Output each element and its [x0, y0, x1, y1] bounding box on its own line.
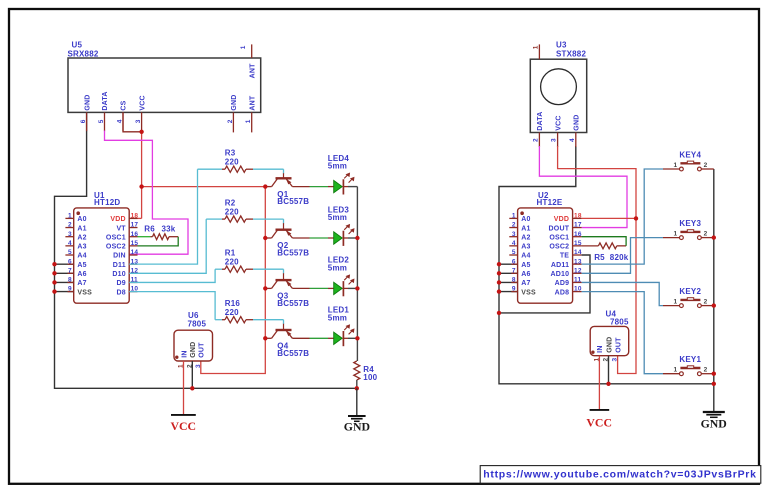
svg-text:16: 16	[131, 231, 139, 238]
svg-text:5: 5	[98, 119, 105, 123]
svg-text:A7: A7	[77, 280, 86, 287]
resistor R6 33k between OSC1/OSC2	[138, 225, 179, 246]
svg-text:https://www.youtube.com/watch?: https://www.youtube.com/watch?v=03JPvsBr…	[483, 468, 756, 480]
U3 pin 4 GND stub	[575, 133, 577, 148]
svg-text:R6: R6	[144, 225, 155, 234]
svg-text:9: 9	[512, 286, 516, 293]
svg-text:VCC: VCC	[171, 419, 197, 433]
svg-text:1: 1	[673, 231, 677, 238]
svg-text:2: 2	[227, 119, 234, 123]
junction dot TE bus	[497, 311, 501, 315]
svg-text:A6: A6	[521, 271, 530, 278]
junction dot rail Q2	[263, 236, 267, 240]
svg-text:IN: IN	[597, 345, 604, 352]
svg-text:5: 5	[512, 249, 516, 256]
svg-text:D10: D10	[112, 271, 125, 278]
svg-text:A4: A4	[521, 253, 530, 260]
U1 pin 3 stub	[65, 236, 73, 238]
svg-text:15: 15	[574, 240, 582, 247]
U3 pin 3 VCC stub	[557, 133, 559, 148]
svg-text:4: 4	[512, 240, 516, 247]
svg-text:GND: GND	[701, 417, 727, 431]
U1 pin 18 stub	[129, 217, 137, 219]
U2 pin 12 stub	[573, 272, 582, 274]
svg-text:17: 17	[574, 222, 582, 229]
svg-text:2: 2	[532, 138, 539, 142]
push button KEY2	[663, 287, 714, 308]
svg-text:VT: VT	[116, 225, 126, 232]
svg-text:2: 2	[704, 367, 708, 374]
svg-text:14: 14	[574, 249, 582, 256]
svg-text:VCC: VCC	[139, 95, 146, 110]
svg-text:KEY1: KEY1	[679, 355, 701, 364]
svg-text:2: 2	[68, 222, 72, 229]
svg-text:16: 16	[574, 231, 582, 238]
svg-text:A2: A2	[521, 234, 530, 241]
U1 pin 11 stub	[129, 281, 137, 283]
svg-text:220: 220	[225, 208, 239, 217]
junction dot rail Q1	[263, 184, 267, 188]
svg-text:11: 11	[574, 277, 581, 284]
svg-text:5mm: 5mm	[328, 313, 347, 322]
svg-text:R1: R1	[225, 249, 236, 258]
svg-text:U5: U5	[72, 40, 83, 49]
svg-text:KEY4: KEY4	[679, 150, 701, 159]
svg-text:D9: D9	[116, 280, 125, 287]
U1 pin 10 stub	[129, 291, 137, 293]
wire D9 to resistor (cyan)	[129, 269, 215, 282]
U1 pin 4 stub	[65, 245, 73, 247]
svg-text:D8: D8	[116, 289, 125, 296]
U1 pin 2 stub	[65, 227, 73, 229]
svg-text:ANT: ANT	[249, 63, 256, 79]
svg-text:R16: R16	[225, 299, 241, 308]
wire AD8 to KEY1 (blue)	[582, 292, 663, 374]
wire key common rail to gnd	[713, 169, 715, 412]
wire D11 to resistor (cyan)	[129, 169, 197, 264]
svg-text:100: 100	[363, 373, 377, 382]
svg-text:1: 1	[240, 45, 247, 49]
U1 pin 8 wire to gnd bus	[55, 281, 74, 283]
U2 pin 5 stub	[509, 254, 517, 256]
svg-text:4: 4	[569, 138, 576, 142]
svg-text:9: 9	[68, 286, 72, 293]
svg-text:5: 5	[68, 249, 72, 256]
svg-text:1: 1	[673, 299, 677, 306]
svg-text:GND: GND	[190, 342, 197, 358]
svg-text:33k: 33k	[162, 225, 176, 234]
junction dot R4 bottom	[355, 386, 359, 390]
junction dot rail gnd right	[712, 382, 716, 386]
U5 pin 1 ANT stub	[251, 112, 253, 132]
junction dot KEY3 rail	[712, 235, 716, 239]
svg-text:6: 6	[80, 119, 87, 123]
junction dot rail Q3	[263, 286, 267, 290]
U1 pin 14 stub	[129, 254, 137, 256]
junction dot U6 GND	[190, 386, 194, 390]
U1 pin 16 stub	[129, 236, 137, 238]
svg-text:7805: 7805	[610, 318, 629, 327]
U2 pin 17 stub	[573, 227, 582, 229]
svg-text:BC557B: BC557B	[277, 299, 309, 308]
junction dot rail Q4	[263, 336, 267, 340]
U1 pin 7 wire to gnd bus	[55, 272, 74, 274]
U2 pin 4 stub	[509, 245, 517, 247]
svg-text:7: 7	[68, 267, 72, 274]
U2 pin 18 stub	[573, 217, 582, 219]
svg-text:HT12E: HT12E	[537, 198, 563, 207]
U1 pin 17 stub	[129, 227, 137, 229]
U2 pin 7 wire to gnd bus	[499, 272, 518, 274]
svg-text:OSC2: OSC2	[106, 244, 126, 251]
svg-text:A1: A1	[521, 225, 530, 232]
transistor Q3 BC557B	[265, 273, 309, 308]
svg-text:DOUT: DOUT	[549, 225, 570, 232]
svg-text:BC557B: BC557B	[277, 197, 309, 206]
svg-text:2: 2	[704, 299, 708, 306]
svg-text:OSC1: OSC1	[549, 234, 569, 241]
junction dot U4 GND	[606, 382, 610, 386]
LED LED4 5mm	[328, 154, 358, 195]
svg-text:3: 3	[512, 231, 516, 238]
svg-text:GND: GND	[606, 337, 613, 353]
svg-text:AD10: AD10	[550, 271, 569, 278]
wire AD9 to KEY2 (blue)	[582, 282, 663, 305]
RF transmitter module U3 STX882	[530, 40, 586, 147]
U2 pin 8 wire to gnd bus	[499, 281, 518, 283]
junction dot KEY2 rail	[712, 303, 716, 307]
power port VCC left	[171, 415, 197, 433]
wire CS to VCC junction	[123, 112, 142, 131]
svg-text:R3: R3	[225, 149, 236, 158]
svg-text:2: 2	[704, 231, 708, 238]
transistor Q1 BC557B	[265, 173, 309, 206]
ground symbol left	[344, 388, 370, 433]
U1 pin 15 stub	[129, 245, 137, 247]
wire VCC branch to Q rail	[142, 186, 266, 188]
resistor R5 820k between OSC1/OSC2	[582, 237, 629, 262]
transistor Q2 BC557B	[265, 223, 309, 258]
wire collector to LED3 (green)	[292, 237, 333, 239]
U1 pin 5 stub	[65, 254, 73, 256]
svg-text:OSC1: OSC1	[106, 234, 126, 241]
wire collector to LED2 (green)	[292, 287, 333, 289]
svg-text:CS: CS	[121, 100, 128, 110]
svg-text:D11: D11	[113, 262, 126, 269]
svg-text:5mm: 5mm	[328, 162, 347, 171]
url box	[480, 466, 761, 484]
U2 pin 10 stub	[573, 291, 582, 293]
svg-text:VSS: VSS	[521, 289, 536, 296]
svg-text:4: 4	[68, 240, 72, 247]
svg-text:7: 7	[512, 267, 516, 274]
junction dot KEY1 rail	[712, 372, 716, 376]
svg-text:820k: 820k	[610, 253, 629, 262]
push button KEY1	[663, 355, 714, 376]
U1 pin 12 stub	[129, 272, 137, 274]
svg-text:220: 220	[225, 158, 239, 167]
svg-text:AD11: AD11	[551, 262, 569, 269]
svg-text:R2: R2	[225, 199, 236, 208]
resistor R16 220	[215, 299, 283, 324]
svg-text:6: 6	[68, 258, 72, 265]
svg-text:VSS: VSS	[77, 289, 92, 296]
junction dot VCC branch	[139, 184, 143, 188]
U3 pin 2 DATA stub	[538, 133, 540, 148]
svg-text:AD9: AD9	[555, 280, 570, 287]
transistor Q4 BC557B	[265, 324, 309, 358]
U2 pin 11 stub	[573, 281, 582, 283]
U2 pin 9 wire to gnd bus	[499, 291, 518, 293]
svg-text:A3: A3	[521, 244, 530, 251]
wire collector to LED4 (green)	[292, 186, 333, 188]
wire D10 to resistor (cyan)	[129, 219, 206, 273]
U2 pin 15 stub	[573, 245, 582, 247]
wire U6 GND to bus	[191, 361, 193, 388]
push button KEY4	[663, 150, 714, 171]
svg-text:GND: GND	[344, 420, 370, 434]
junction dots gnd bus U2 pins 6-9	[497, 262, 501, 294]
svg-text:VDD: VDD	[554, 216, 569, 223]
svg-text:12: 12	[574, 267, 582, 274]
svg-text:A5: A5	[77, 262, 86, 269]
svg-text:2: 2	[704, 162, 708, 169]
svg-text:1: 1	[68, 213, 72, 220]
svg-text:A7: A7	[521, 280, 530, 287]
svg-text:18: 18	[574, 213, 582, 220]
decoder IC U1 HT12D	[55, 191, 139, 303]
svg-text:R5: R5	[594, 253, 605, 262]
svg-text:GND: GND	[574, 115, 581, 131]
svg-text:BC557B: BC557B	[277, 249, 309, 258]
svg-text:A5: A5	[521, 262, 530, 269]
U5 pin 3 VCC stub	[141, 112, 143, 131]
resistor R1 220	[215, 249, 283, 274]
junction dot CS/VCC	[139, 130, 143, 134]
U2 pin 14 stub	[573, 254, 582, 256]
U1 pin 1 stub	[65, 217, 73, 219]
svg-text:SRX882: SRX882	[68, 50, 99, 59]
LED LED2 5mm	[328, 256, 358, 297]
svg-text:DIN: DIN	[113, 253, 126, 260]
svg-text:1: 1	[533, 45, 540, 49]
U1 pin 13 stub	[129, 263, 137, 265]
U2 pin 16 stub	[573, 236, 582, 238]
svg-text:A4: A4	[77, 253, 86, 260]
U2 pin 13 stub	[573, 263, 582, 265]
svg-text:TE: TE	[560, 253, 569, 260]
U5 pin 2 GND stub	[232, 112, 234, 132]
svg-text:IN: IN	[181, 350, 188, 357]
svg-text:17: 17	[131, 222, 139, 229]
power port VCC right	[586, 410, 612, 430]
svg-text:VCC: VCC	[555, 115, 562, 130]
svg-text:VCC: VCC	[586, 416, 612, 430]
svg-text:1: 1	[673, 367, 677, 374]
LED LED1 5mm	[328, 306, 358, 347]
resistor R4 100	[354, 361, 378, 388]
wire DATA to DIN magenta	[105, 131, 189, 255]
U2 pin 6 wire to gnd bus	[499, 263, 518, 265]
svg-text:STX882: STX882	[556, 50, 586, 59]
wire D8 to resistor (cyan)	[129, 292, 215, 320]
U5 pin 6 GND stub	[86, 112, 88, 131]
svg-text:220: 220	[225, 258, 239, 267]
U2 pin 2 stub	[509, 227, 517, 229]
svg-text:DATA: DATA	[102, 91, 109, 110]
wire U4 GND to bus	[608, 356, 610, 384]
svg-text:1: 1	[673, 162, 677, 169]
svg-text:3: 3	[551, 138, 558, 142]
U1 pin 9 wire to gnd bus	[55, 291, 74, 293]
RF receiver module U5 SRX882	[68, 40, 261, 132]
svg-text:8: 8	[68, 277, 72, 284]
wire U4 IN to VCC port	[598, 356, 600, 410]
resistor R3 220	[198, 149, 284, 174]
encoder IC U2 HT12E	[499, 191, 582, 303]
svg-text:14: 14	[131, 249, 139, 256]
wire AD11 to KEY4 (blue)	[582, 169, 663, 264]
wire LED cathode rail (dark)	[356, 187, 358, 361]
U5 pin 4 CS stub	[122, 112, 124, 131]
U2 pin 3 stub	[509, 236, 517, 238]
svg-text:A0: A0	[521, 216, 530, 223]
U3 pin 1 ANT top stub	[538, 44, 540, 59]
svg-text:A6: A6	[77, 271, 86, 278]
LED LED3 5mm	[328, 205, 358, 246]
wire TE to gnd bus	[499, 255, 590, 313]
wire red emitter rail and U6 OUT feed	[201, 187, 265, 374]
svg-text:2: 2	[512, 222, 516, 229]
svg-text:OUT: OUT	[615, 337, 622, 353]
U1 pin 6 wire to gnd bus	[55, 263, 74, 265]
svg-text:A1: A1	[77, 225, 86, 232]
wire collector to LED1 (green)	[292, 337, 333, 339]
svg-text:15: 15	[131, 240, 139, 247]
svg-text:KEY2: KEY2	[679, 287, 701, 296]
svg-text:3: 3	[68, 231, 72, 238]
wire U6 IN to VCC port	[183, 361, 185, 415]
svg-text:10: 10	[574, 286, 582, 293]
U2 pin 1 stub	[509, 217, 517, 219]
wire GND bus left (U5 pin6 down-left-across bottom)	[55, 113, 357, 388]
svg-text:5mm: 5mm	[328, 263, 347, 272]
svg-text:220: 220	[225, 308, 239, 317]
svg-text:OSC2: OSC2	[549, 244, 569, 251]
wire GND bus right (U3 pin4 down-left-across bottom)	[499, 146, 714, 384]
svg-text:1: 1	[245, 119, 252, 123]
svg-text:DATA: DATA	[537, 111, 544, 130]
U5 pin 5 DATA stub	[104, 112, 106, 131]
svg-text:7805: 7805	[188, 319, 207, 328]
svg-text:ANT: ANT	[249, 95, 256, 111]
svg-text:3: 3	[135, 119, 142, 123]
svg-text:GND: GND	[84, 94, 91, 110]
wire AD10 to KEY3 (blue)	[582, 238, 663, 274]
svg-text:18: 18	[131, 213, 139, 220]
push button KEY3	[663, 219, 714, 240]
svg-text:6: 6	[512, 258, 516, 265]
wire U2 VDD to red rail	[582, 217, 636, 219]
regulator U4 7805	[590, 310, 629, 362]
junction dots LED rail	[355, 236, 359, 341]
svg-text:5mm: 5mm	[328, 213, 347, 222]
svg-text:BC557B: BC557B	[277, 349, 309, 358]
svg-text:GND: GND	[231, 94, 238, 110]
svg-text:3: 3	[195, 364, 202, 368]
svg-text:A3: A3	[77, 244, 86, 251]
svg-text:8: 8	[512, 277, 516, 284]
svg-text:HT12D: HT12D	[94, 198, 120, 207]
svg-text:AD8: AD8	[555, 289, 570, 296]
resistor R2 220	[206, 199, 283, 224]
svg-text:U3: U3	[556, 40, 567, 49]
svg-text:1: 1	[512, 213, 516, 220]
wire VCC vertical U5 pin3 to U1 VDD	[129, 131, 141, 218]
svg-text:VDD: VDD	[110, 216, 125, 223]
svg-text:13: 13	[574, 258, 582, 265]
regulator U6 7805	[174, 311, 213, 368]
wire U3 DATA to U2 DOUT magenta	[539, 146, 627, 228]
svg-text:3: 3	[612, 358, 619, 362]
ground symbol right	[701, 412, 727, 431]
wire U3 VCC to rail and U4 OUT	[558, 146, 636, 374]
svg-text:A2: A2	[77, 234, 86, 241]
svg-text:KEY3: KEY3	[679, 219, 701, 228]
junction dot VDD rail	[634, 216, 638, 220]
svg-text:A0: A0	[77, 216, 86, 223]
U5 pin 1 ANT top stub	[251, 44, 253, 58]
junction dots gnd bus pins 6-9	[52, 262, 56, 294]
svg-text:OUT: OUT	[199, 342, 206, 358]
